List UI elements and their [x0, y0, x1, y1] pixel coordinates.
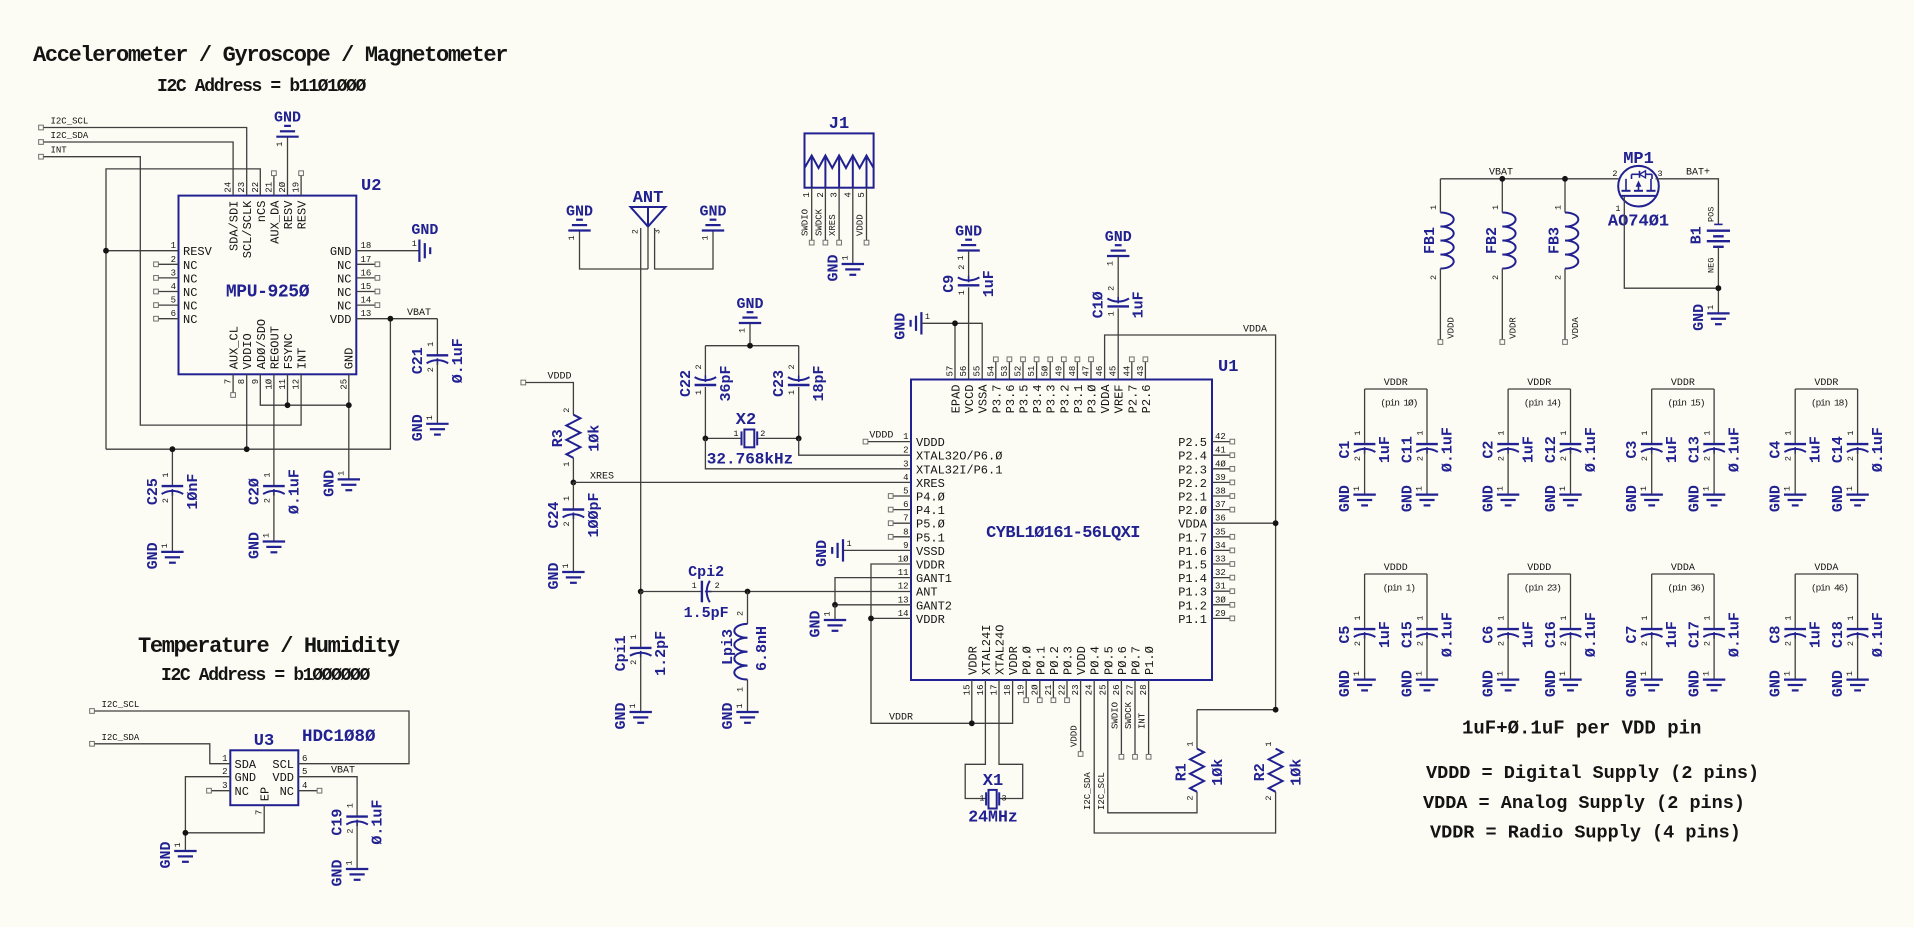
svg-text:XRES: XRES	[916, 477, 945, 491]
svg-text:VDDD: VDDD	[1070, 725, 1080, 747]
svg-text:46: 46	[1095, 366, 1105, 377]
svg-text:C7: C7	[1624, 626, 1641, 644]
svg-text:56: 56	[959, 366, 969, 377]
svg-text:U3: U3	[254, 732, 274, 751]
svg-text:1: 1	[1106, 261, 1116, 266]
svg-text:45: 45	[1109, 366, 1119, 377]
svg-text:47: 47	[1082, 366, 1092, 377]
wire U2 pin 8 VDDIO	[246, 374, 248, 449]
svg-text:XTAL24O: XTAL24O	[994, 625, 1008, 675]
wire ANT pin 1 to ground	[647, 227, 649, 269]
svg-text:C14: C14	[1830, 436, 1847, 463]
wire MP1 gate	[1624, 196, 1718, 288]
svg-text:2: 2	[715, 581, 720, 591]
svg-text:GND: GND	[1337, 485, 1354, 512]
svg-text:R2: R2	[1252, 763, 1269, 781]
capacitor Cpi2 1.5pF	[641, 564, 911, 622]
svg-text:REGOUT: REGOUT	[268, 326, 282, 369]
svg-text:1Ø: 1Ø	[264, 378, 274, 389]
svg-text:1: 1	[1559, 615, 1569, 620]
svg-text:18pF: 18pF	[811, 365, 828, 401]
svg-text:ANT: ANT	[633, 189, 664, 208]
svg-text:INT: INT	[1138, 712, 1148, 729]
svg-text:P5.Ø: P5.Ø	[916, 518, 945, 532]
svg-text:C1: C1	[1337, 441, 1354, 459]
ground below GANT junction	[808, 605, 847, 638]
svg-text:3: 3	[830, 192, 840, 197]
svg-text:2: 2	[760, 429, 765, 439]
svg-text:NC: NC	[337, 259, 351, 273]
svg-text:GND: GND	[613, 702, 630, 729]
svg-text:26: 26	[1112, 685, 1122, 696]
svg-text:14: 14	[898, 609, 909, 619]
svg-text:2: 2	[1416, 641, 1426, 646]
svg-text:Ø.1uF: Ø.1uF	[450, 338, 467, 383]
svg-text:VDDA: VDDA	[1178, 518, 1208, 532]
capacitor C21 0.1uF	[410, 319, 467, 424]
svg-text:I2C_SCL: I2C_SCL	[51, 117, 89, 127]
svg-text:(pin 15): (pin 15)	[1667, 398, 1704, 409]
ground below C21	[410, 414, 449, 441]
ground below U2 pin 25	[321, 470, 360, 497]
svg-text:1: 1	[736, 687, 746, 692]
svg-text:2: 2	[562, 408, 572, 413]
svg-text:11: 11	[898, 568, 909, 578]
wire MP1 to BAT+	[1656, 179, 1719, 225]
svg-text:INT: INT	[51, 146, 68, 156]
capacitor C24 100pF	[546, 482, 603, 572]
svg-text:C24: C24	[546, 501, 563, 528]
svg-text:1uF: 1uF	[1808, 621, 1825, 648]
net INT terminal	[39, 146, 68, 159]
svg-text:2: 2	[1107, 286, 1117, 291]
svg-text:VCCD: VCCD	[963, 385, 977, 414]
svg-text:GND: GND	[699, 204, 726, 221]
svg-text:I2C_SCL: I2C_SCL	[1097, 772, 1107, 810]
svg-text:C9: C9	[941, 275, 958, 293]
svg-text:1: 1	[567, 235, 577, 240]
wire VDDA net top	[1105, 335, 1276, 710]
svg-text:1: 1	[957, 290, 967, 295]
svg-text:2: 2	[426, 367, 436, 372]
svg-text:1uF: 1uF	[1377, 621, 1394, 648]
svg-text:1: 1	[738, 328, 748, 333]
svg-text:NC: NC	[337, 300, 351, 314]
decoupling pair C5/C15 VDDD (pin 1)	[1337, 563, 1456, 680]
junction	[1716, 285, 1722, 291]
J1 pin 1 SWDIO	[801, 188, 814, 245]
capacitor C20 0.1uF	[246, 374, 303, 541]
svg-text:C5: C5	[1337, 626, 1354, 644]
svg-text:I2C_SDA: I2C_SDA	[51, 131, 89, 141]
svg-text:19: 19	[1017, 684, 1027, 695]
svg-text:PØ.Ø: PØ.Ø	[1021, 646, 1035, 675]
svg-text:PØ.5: PØ.5	[1102, 646, 1116, 675]
svg-text:1: 1	[1846, 615, 1856, 620]
svg-text:2: 2	[1559, 641, 1569, 646]
ground below C19	[330, 859, 369, 886]
junction	[747, 343, 753, 349]
svg-text:P3.7: P3.7	[990, 385, 1004, 414]
svg-text:VDDR = Radio Supply (4 pins): VDDR = Radio Supply (4 pins)	[1430, 823, 1741, 844]
capacitor C22 36pF	[678, 346, 735, 439]
ground below C11	[1400, 485, 1439, 512]
svg-text:1: 1	[1497, 615, 1507, 620]
svg-text:P2.7: P2.7	[1126, 385, 1140, 414]
svg-text:2: 2	[1497, 641, 1507, 646]
wire U2 pin 13 VDD to VBAT	[356, 318, 437, 320]
svg-text:1: 1	[1559, 430, 1569, 435]
svg-text:NC: NC	[183, 313, 197, 327]
ground left of U1 EPAD	[892, 312, 982, 380]
svg-text:17: 17	[990, 685, 1000, 696]
svg-text:C13: C13	[1687, 436, 1704, 463]
svg-text:POS: POS	[1707, 207, 1717, 222]
wire U3 pin 2 GND	[185, 777, 230, 851]
svg-text:VDDR: VDDR	[1384, 378, 1408, 389]
wire U1 pin 28 INT	[1138, 680, 1151, 759]
ground below C20	[246, 532, 285, 559]
svg-text:P2.4: P2.4	[1178, 450, 1207, 464]
svg-text:VDD: VDD	[272, 771, 294, 785]
wire U1 pin 36 VDDA	[1212, 522, 1276, 524]
svg-text:27: 27	[1126, 685, 1136, 696]
svg-text:I2C Address = b1ØØØØØØ: I2C Address = b1ØØØØØØ	[161, 666, 370, 686]
U2 pin 7 stub terminal	[231, 374, 236, 397]
svg-text:P3.5: P3.5	[1018, 385, 1032, 414]
wire VBAT rail below U2	[106, 319, 390, 450]
svg-text:16: 16	[976, 685, 986, 696]
svg-text:1.5pF: 1.5pF	[684, 605, 729, 622]
svg-text:Ø.1uF: Ø.1uF	[1870, 612, 1887, 657]
wire U3 pin 7 EP	[185, 805, 264, 833]
svg-text:NC: NC	[183, 272, 197, 286]
junction	[183, 830, 189, 836]
junction	[638, 589, 644, 595]
svg-text:GANT2: GANT2	[916, 599, 952, 613]
svg-text:1: 1	[956, 255, 966, 260]
svg-text:2: 2	[1846, 456, 1856, 461]
svg-text:RESV: RESV	[282, 200, 296, 230]
svg-text:2: 2	[736, 611, 746, 616]
svg-text:GND: GND	[1400, 485, 1417, 512]
svg-text:49: 49	[1054, 366, 1064, 377]
svg-text:1uF: 1uF	[1521, 621, 1538, 648]
svg-text:B1: B1	[1689, 226, 1706, 244]
ground right of ANT	[655, 204, 727, 270]
svg-text:U1: U1	[1218, 358, 1238, 377]
svg-text:9: 9	[251, 379, 261, 384]
svg-text:15: 15	[962, 685, 972, 696]
svg-text:C11: C11	[1400, 436, 1417, 463]
inductor Lpi3 6.8nH	[720, 592, 771, 713]
svg-text:C8: C8	[1768, 626, 1785, 644]
U1 bottom stubs P0.0-P0.3	[1024, 680, 1070, 703]
svg-text:2: 2	[1703, 456, 1713, 461]
ground above C10	[1105, 229, 1132, 297]
svg-text:GND: GND	[1400, 670, 1417, 697]
wire I2C_SCL to U2 pin 23	[44, 128, 247, 196]
svg-text:GND: GND	[892, 313, 909, 340]
svg-text:4: 4	[302, 781, 307, 791]
wire X2 to U1 XTAL32I	[705, 438, 911, 468]
svg-text:VDDD: VDDD	[856, 214, 866, 236]
junction	[745, 589, 751, 595]
svg-text:GND: GND	[566, 204, 593, 221]
svg-text:2: 2	[1559, 456, 1569, 461]
wire R1 top to VDDA	[1197, 709, 1276, 711]
chip U3 HDC1080	[230, 727, 376, 805]
svg-text:C23: C23	[771, 370, 788, 397]
U3 NC stubs	[207, 788, 322, 793]
svg-text:(pin 14): (pin 14)	[1524, 398, 1561, 409]
svg-text:SWDCK: SWDCK	[1124, 701, 1134, 729]
svg-text:1: 1	[903, 432, 908, 442]
svg-text:2: 2	[629, 660, 639, 665]
ground below C2	[1481, 485, 1520, 512]
wire I2C_SCL to U3 pin 6	[95, 711, 409, 764]
svg-text:VDDR: VDDR	[1508, 317, 1518, 339]
U1 right stubs with terminals	[1212, 439, 1235, 621]
svg-text:38: 38	[1215, 487, 1226, 497]
svg-text:11: 11	[278, 379, 288, 390]
svg-text:P1.3: P1.3	[1178, 586, 1207, 600]
U2 pin names and numbers	[171, 181, 372, 389]
svg-text:P1.5: P1.5	[1178, 559, 1207, 573]
svg-text:17: 17	[361, 255, 372, 265]
svg-text:nCS: nCS	[255, 201, 269, 223]
decoupling pair C6/C16 VDDD (pin 23)	[1481, 563, 1600, 680]
ground below C3	[1624, 485, 1663, 512]
ground below C25	[145, 542, 184, 569]
svg-text:GND: GND	[1768, 670, 1785, 697]
svg-text:1: 1	[1784, 615, 1794, 620]
ground below C5	[1337, 670, 1376, 697]
svg-text:41: 41	[1215, 446, 1226, 456]
svg-text:MPU-925Ø: MPU-925Ø	[226, 283, 310, 303]
net I2C_SCL terminal U3	[90, 700, 140, 713]
svg-text:GND: GND	[330, 859, 347, 886]
svg-text:Ø.1uF: Ø.1uF	[370, 800, 387, 845]
ground below C6	[1481, 670, 1520, 697]
svg-text:CYBL1Ø161-56LQXI: CYBL1Ø161-56LQXI	[986, 524, 1140, 543]
svg-text:C2: C2	[1481, 441, 1498, 459]
svg-text:2: 2	[262, 498, 272, 503]
wire U1 pin 27 SWDCK	[1124, 680, 1137, 759]
svg-text:1: 1	[1846, 430, 1856, 435]
svg-text:GND: GND	[235, 771, 257, 785]
svg-text:2Ø: 2Ø	[278, 181, 288, 192]
svg-text:2: 2	[562, 521, 572, 526]
resistor R1 10k	[1174, 710, 1228, 801]
svg-text:RESV: RESV	[296, 200, 310, 230]
svg-text:3: 3	[903, 459, 908, 469]
ground above X2	[736, 296, 763, 346]
svg-text:1: 1	[1353, 615, 1363, 620]
svg-text:2: 2	[816, 192, 826, 197]
svg-text:ADØ/SDO: ADØ/SDO	[255, 319, 269, 369]
svg-text:1: 1	[979, 794, 984, 804]
svg-text:1Øk: 1Øk	[1289, 759, 1306, 786]
wire J1 pin 4 to ground	[852, 188, 854, 264]
svg-text:C16: C16	[1543, 621, 1560, 648]
U1 pin names and numbers	[898, 365, 1227, 695]
svg-text:Ø.1uF: Ø.1uF	[1440, 427, 1457, 472]
svg-text:1: 1	[787, 390, 797, 395]
svg-text:GND: GND	[1543, 485, 1560, 512]
svg-text:Temperature / Humidity: Temperature / Humidity	[138, 634, 400, 659]
svg-text:1ØØpF: 1ØØpF	[586, 492, 603, 537]
svg-text:3: 3	[171, 268, 176, 278]
svg-text:1uF: 1uF	[1808, 436, 1825, 463]
svg-text:3Ø: 3Ø	[1215, 595, 1226, 605]
net I2C_SDA terminal	[39, 131, 89, 144]
svg-text:ANT: ANT	[916, 586, 938, 600]
junction	[1273, 707, 1279, 713]
U1 left stubs P4.0-P5.1	[888, 494, 911, 540]
svg-text:VDDD: VDDD	[1446, 317, 1456, 339]
svg-text:34: 34	[1215, 541, 1226, 551]
svg-text:6: 6	[171, 309, 176, 319]
ferrite bead FB2	[1484, 179, 1519, 345]
svg-text:2: 2	[346, 828, 356, 833]
capacitor Cpi1 1.2pF	[613, 592, 670, 713]
svg-text:31: 31	[1215, 582, 1226, 592]
capacitor C25 10nF	[145, 449, 202, 552]
svg-text:2: 2	[1554, 275, 1564, 280]
svg-text:2: 2	[787, 364, 797, 369]
ground below J1 pin 4	[825, 254, 864, 281]
wire XRES to U1 pin 4	[573, 481, 911, 483]
wire X2 top rail	[705, 345, 798, 347]
svg-text:(pin 1Ø): (pin 1Ø)	[1380, 398, 1417, 409]
svg-text:1uF: 1uF	[1664, 436, 1681, 463]
svg-text:(pin 1): (pin 1)	[1383, 583, 1416, 594]
svg-text:NEG: NEG	[1707, 258, 1717, 273]
svg-text:GND: GND	[955, 224, 982, 241]
svg-text:1: 1	[1703, 615, 1713, 620]
svg-text:1: 1	[694, 390, 704, 395]
svg-text:(pin 36): (pin 36)	[1667, 583, 1704, 594]
svg-text:GND: GND	[343, 348, 357, 370]
svg-text:1: 1	[262, 472, 272, 477]
svg-text:VDDA = Analog Supply (2 pins): VDDA = Analog Supply (2 pins)	[1423, 793, 1745, 814]
junction	[103, 248, 109, 254]
svg-text:1: 1	[275, 142, 285, 147]
svg-text:51: 51	[1027, 366, 1037, 377]
svg-text:Ø.1uF: Ø.1uF	[1440, 612, 1457, 657]
svg-text:32: 32	[1215, 568, 1226, 578]
svg-text:P3.2: P3.2	[1058, 385, 1072, 414]
svg-text:XTAL32I/P6.1: XTAL32I/P6.1	[916, 463, 1002, 477]
svg-text:1: 1	[1264, 741, 1274, 746]
svg-text:P3.3: P3.3	[1045, 385, 1059, 414]
svg-text:PØ.3: PØ.3	[1062, 646, 1076, 675]
wire ANT feed	[640, 228, 642, 592]
svg-text:GND: GND	[736, 296, 763, 313]
svg-text:PØ.7: PØ.7	[1130, 646, 1144, 675]
svg-text:P4.Ø: P4.Ø	[916, 491, 945, 505]
ground above U2 pin 20	[274, 110, 301, 196]
svg-text:PØ.4: PØ.4	[1089, 646, 1103, 675]
ground below Lpi3	[720, 702, 759, 729]
svg-text:1: 1	[1640, 430, 1650, 435]
svg-text:XTAL32O/P6.Ø: XTAL32O/P6.Ø	[916, 450, 1002, 464]
svg-text:1: 1	[925, 312, 930, 322]
svg-text:1: 1	[1554, 205, 1564, 210]
svg-text:R1: R1	[1174, 763, 1191, 781]
net I2C_SCL terminal	[39, 117, 89, 130]
svg-text:1: 1	[1640, 615, 1650, 620]
svg-text:FB1: FB1	[1422, 227, 1439, 254]
svg-text:2: 2	[1429, 275, 1439, 280]
svg-text:1: 1	[1497, 430, 1507, 435]
svg-text:15: 15	[361, 282, 372, 292]
svg-text:19: 19	[292, 182, 302, 193]
wire VDDD to R3	[526, 383, 574, 415]
svg-text:P3.Ø: P3.Ø	[1086, 385, 1100, 414]
crystal X2 32.768kHz	[705, 411, 798, 469]
decoupling pair C7/C17 VDDA (pin 36)	[1624, 563, 1743, 680]
junction	[969, 720, 975, 726]
svg-text:U2: U2	[361, 177, 381, 196]
svg-text:SDA: SDA	[235, 758, 257, 772]
svg-text:P1.1: P1.1	[1178, 613, 1207, 627]
svg-text:J1: J1	[829, 115, 849, 134]
svg-text:Ø.1uF: Ø.1uF	[286, 469, 303, 514]
svg-text:1uF: 1uF	[1377, 436, 1394, 463]
svg-text:(pin 23): (pin 23)	[1524, 583, 1561, 594]
svg-text:8: 8	[903, 527, 908, 537]
svg-text:C21: C21	[410, 347, 427, 374]
svg-text:VDDD: VDDD	[916, 436, 945, 450]
ground below C14	[1830, 485, 1869, 512]
svg-text:2: 2	[1491, 275, 1501, 280]
svg-text:PØ.6: PØ.6	[1116, 646, 1130, 675]
junction	[703, 436, 709, 442]
svg-text:GND: GND	[145, 542, 162, 569]
svg-text:GND: GND	[1543, 670, 1560, 697]
svg-text:42: 42	[1215, 432, 1226, 442]
svg-text:1: 1	[629, 634, 639, 639]
svg-text:GND: GND	[1624, 485, 1641, 512]
svg-text:37: 37	[1215, 500, 1226, 510]
resistor R3 10k	[550, 408, 604, 467]
svg-text:C3: C3	[1624, 441, 1641, 459]
junction	[170, 446, 176, 452]
junction	[1499, 176, 1505, 182]
wire EPAD pin 57	[954, 323, 956, 379]
svg-text:1uF: 1uF	[981, 270, 998, 297]
J1 pin 5 VDDD	[856, 188, 869, 245]
svg-text:SCL/SCLK: SCL/SCLK	[241, 200, 255, 258]
net I2C_SDA terminal U3	[90, 733, 140, 746]
svg-text:Cpi2: Cpi2	[688, 564, 724, 581]
U2 top pin 21 and 19 stubs	[272, 171, 304, 196]
decoupling pair C8/C18 VDDA (pin 46)	[1768, 563, 1887, 680]
svg-text:5: 5	[302, 767, 307, 777]
svg-text:1: 1	[1353, 430, 1363, 435]
svg-text:5Ø: 5Ø	[1041, 365, 1051, 376]
svg-text:SWDIO: SWDIO	[801, 209, 811, 236]
capacitor C19 0.1uF	[330, 800, 387, 869]
svg-text:4Ø: 4Ø	[1215, 459, 1226, 469]
wire INT to U2 pin 12	[44, 157, 302, 425]
ground above C9 EPAD	[955, 224, 982, 277]
svg-text:2: 2	[161, 498, 171, 503]
junction	[796, 436, 802, 442]
svg-text:1.2pF: 1.2pF	[653, 631, 670, 676]
